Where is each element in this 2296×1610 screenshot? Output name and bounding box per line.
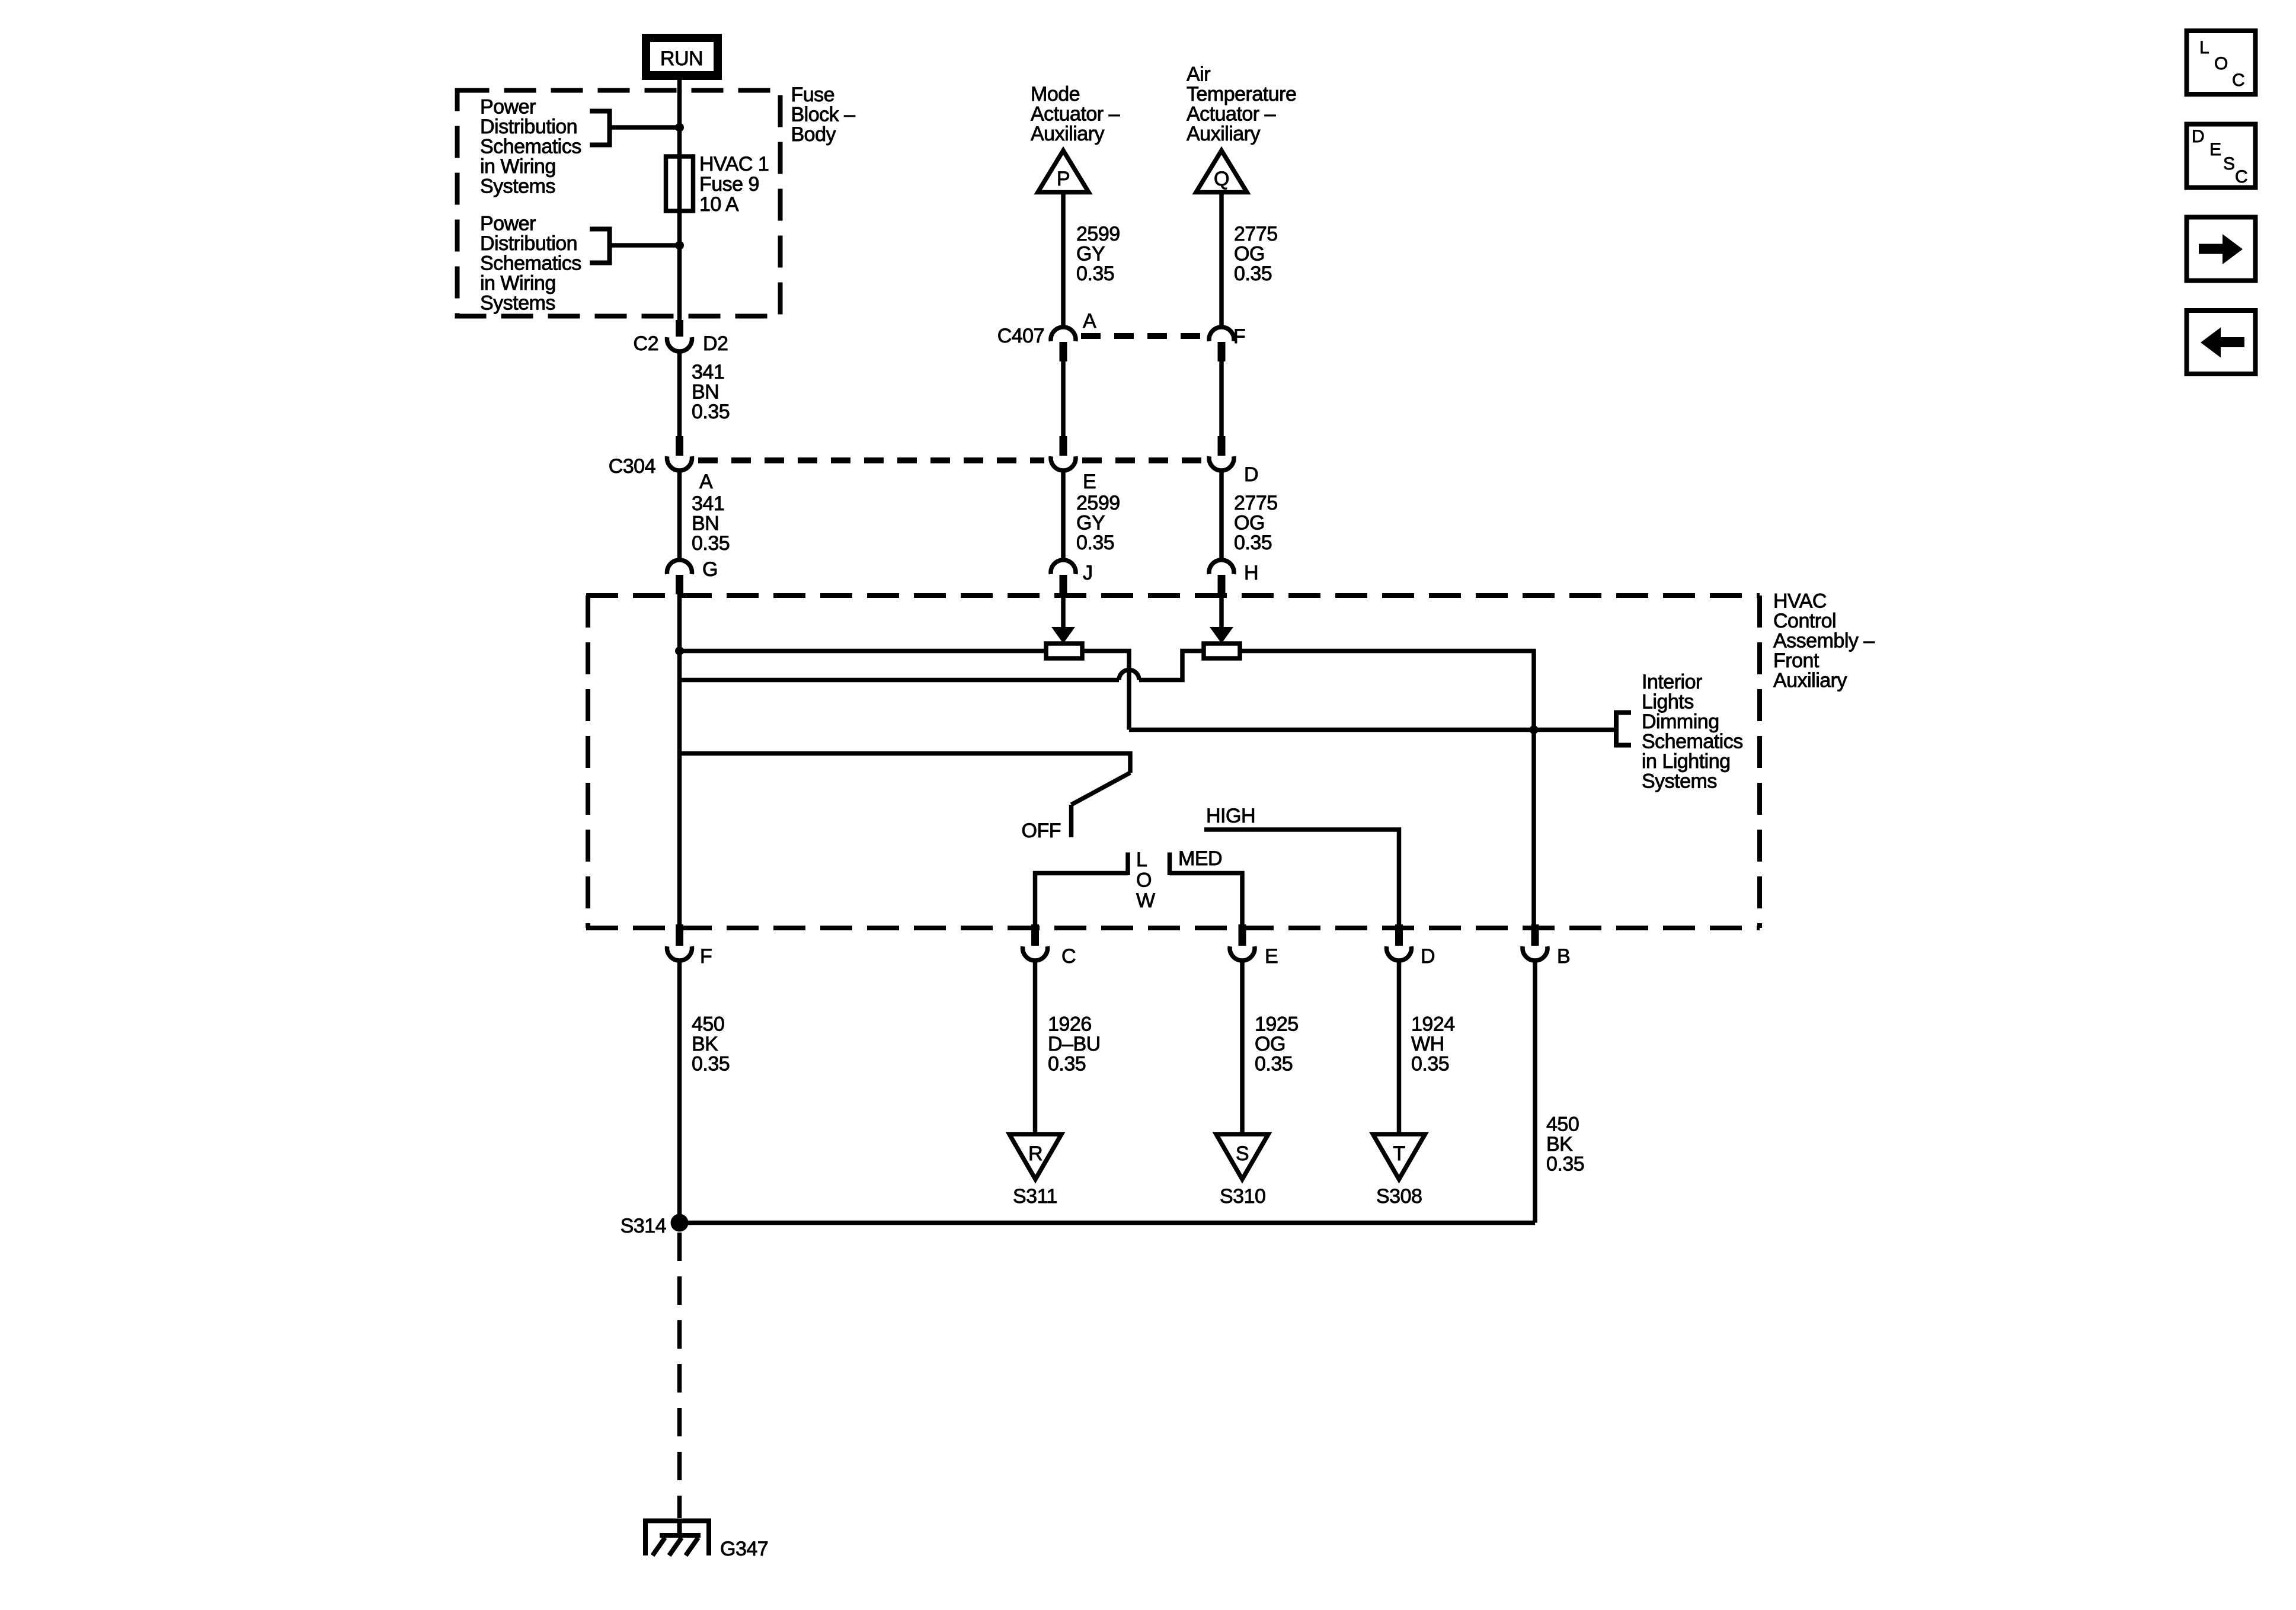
svg-text:OFF: OFF [1022,820,1061,842]
svg-text:Fuse: Fuse [791,84,835,106]
svg-text:1924: 1924 [1411,1013,1455,1036]
svg-text:W: W [1136,889,1155,912]
svg-text:2775: 2775 [1234,223,1278,245]
fuse F9 HVAC 1 symbol [666,156,693,211]
svg-text:B: B [1557,945,1570,968]
connector C304 pin D male stub [1218,436,1226,456]
svg-text:F: F [1233,325,1245,348]
svg-text:C407: C407 [997,325,1044,347]
label 2775 OG 0.35 (upper) [1234,223,1278,285]
wire bracket to junction upper [610,125,680,130]
wire F to S314, circuit 450 BK [677,962,682,1221]
connector C407 pin F dome [1209,327,1234,341]
svg-text:C304: C304 [609,455,655,478]
node junction at bus 1 [675,646,684,655]
svg-text:341: 341 [692,492,724,515]
svg-text:Temperature: Temperature [1187,83,1296,105]
wire MED contact to pin E [1170,873,1243,926]
svg-text:0.35: 0.35 [1234,263,1272,285]
svg-text:0.35: 0.35 [692,1053,730,1076]
ground bus wire S314 to B [680,1221,1536,1225]
svg-text:L: L [2199,38,2209,57]
svg-text:Dimming: Dimming [1642,710,1719,733]
dashed connector line C304 E to D [1082,457,1203,463]
nav box LOC [2187,31,2256,94]
bracket to Power Distribution Schematics (upper) [590,111,610,145]
svg-text:2599: 2599 [1076,492,1120,514]
svg-text:2775: 2775 [1234,492,1278,514]
svg-text:341: 341 [692,361,724,383]
svg-text:Actuator –: Actuator – [1187,103,1276,126]
wire H to arrow 2 [1219,593,1224,628]
svg-text:OG: OG [1255,1033,1285,1055]
wire P to C407 A, circuit 2599 GY [1061,194,1066,327]
svg-text:Actuator –: Actuator – [1031,103,1120,126]
left vertical wire inside box down to F [677,651,682,926]
svg-text:WH: WH [1411,1033,1444,1055]
wire C to S311, circuit 1926 D-BU [1033,962,1038,1133]
svg-text:OG: OG [1234,243,1265,265]
wire Q to C407 F, circuit 2775 OG [1219,194,1224,327]
svg-text:D–BU: D–BU [1048,1033,1101,1055]
svg-text:BN: BN [692,381,719,404]
label Fuse Block - Body [791,84,856,146]
wire C407 F to C304 D, circuit 2775 OG [1219,360,1224,438]
label LOW [1136,849,1155,912]
svg-text:Power: Power [480,96,536,119]
wire E to S310, circuit 1925 OG [1240,962,1245,1133]
main wire through fuse block [677,90,682,325]
svg-text:10 A: 10 A [699,193,739,216]
connector C407 pin A dome [1051,327,1076,341]
label Power Distribution Schematics in Wiring Systems (upper) [480,96,581,198]
wire LOW contact to pin C [1035,873,1128,926]
svg-text:Mode: Mode [1031,83,1080,105]
wire G into box [677,593,682,652]
svg-text:Schematics: Schematics [480,136,581,158]
svg-text:Auxiliary: Auxiliary [1187,123,1260,145]
connector pin G dome [667,560,692,574]
svg-text:BN: BN [692,513,719,535]
svg-text:S: S [1236,1142,1249,1165]
label HVAC Control Assembly - Front Auxiliary [1773,590,1875,692]
svg-text:S311: S311 [1013,1185,1057,1208]
off-page triangle Q (Air Temperature Actuator - Auxiliary) [1196,151,1247,193]
svg-text:F: F [700,945,712,968]
wire C2 to C304, circuit 341 BN [677,353,682,438]
RUN box (ignition switch position) [642,34,722,80]
svg-text:Distribution: Distribution [480,232,577,255]
MED contact [1168,853,1172,876]
bracket to Power Distribution Schematics (lower) [590,229,610,263]
connector pin C cup [1023,946,1048,961]
svg-text:C: C [1061,945,1076,968]
label Power Distribution Schematics in Wiring Systems (lower) [480,213,581,315]
connector pin J dome [1051,560,1076,574]
connector C304 pin E female cup [1051,456,1076,470]
connector C304 pin D female cup [1209,456,1234,470]
label 341 BN 0.35 (upper) [692,361,730,423]
connector pin F cup [667,946,692,961]
svg-text:Block –: Block – [791,104,856,126]
svg-text:L: L [1136,849,1147,871]
svg-text:1925: 1925 [1255,1013,1299,1036]
wire C304 to G, circuit 341 BN [677,472,682,561]
connector pin E stub [1239,924,1246,946]
wire RUN to fuse block [677,77,682,92]
arrowhead into resistor 2 [1210,627,1233,644]
svg-text:Schematics: Schematics [1642,731,1743,753]
svg-text:HIGH: HIGH [1206,805,1255,827]
svg-text:0.35: 0.35 [692,532,730,555]
bus wire 1 to resistor 1 [680,649,1047,654]
label 341 BN 0.35 (lower) [692,492,730,555]
bracket to Interior Lights Dimming Schematics [1616,713,1631,745]
connector pin H dome [1209,560,1234,574]
svg-text:Interior: Interior [1642,671,1702,693]
svg-text:Lights: Lights [1642,691,1694,713]
svg-text:0.35: 0.35 [1546,1153,1584,1176]
svg-text:Systems: Systems [480,175,555,198]
svg-text:in Wiring: in Wiring [480,155,556,178]
connector C407 pin F male stub [1218,342,1226,361]
svg-text:D: D [1244,463,1258,486]
connector pin B stub [1531,924,1539,946]
resistor 1 (mode actuator feed) [1046,644,1082,658]
svg-text:0.35: 0.35 [1234,532,1272,554]
label 1924 WH 0.35 [1411,1013,1455,1076]
resistor 2 (air temp actuator feed) [1204,644,1240,658]
nav box back arrow [2187,311,2256,374]
wire resistor 1 to corner [1082,651,1129,730]
nav box next arrow [2187,217,2256,281]
svg-text:S308: S308 [1376,1185,1422,1208]
svg-text:H: H [1244,562,1258,584]
svg-text:A: A [1083,310,1096,332]
wire J to arrow 1 [1061,593,1066,628]
Air Temperature Actuator label [1187,63,1296,146]
connector pin J male stub [1060,575,1067,594]
splice triangle R (S311) [1009,1134,1061,1179]
svg-text:E: E [1265,945,1278,968]
label 2599 GY 0.35 (lower) [1076,492,1120,554]
svg-text:D: D [2192,127,2204,146]
connector C2 D2 female cup [667,337,692,351]
connector pin H male stub [1218,575,1226,594]
Mode Actuator label [1031,83,1120,145]
label 450 BK 0.35 (right) [1546,1113,1584,1176]
connector C304 pin E male stub [1060,436,1067,456]
connector pin B cup [1523,946,1547,961]
arrowhead into resistor 1 [1051,627,1075,644]
svg-text:BK: BK [692,1033,718,1055]
wire C304 E to J [1061,472,1066,561]
svg-text:C: C [2235,167,2247,187]
svg-text:Control: Control [1773,610,1836,632]
LOW contact [1125,853,1130,876]
svg-text:Fuse 9: Fuse 9 [699,173,759,196]
svg-text:T: T [1393,1142,1405,1165]
svg-text:G347: G347 [720,1538,768,1560]
svg-text:O: O [1136,869,1152,892]
dashed connector line C304 A to E [698,457,1044,463]
off-page triangle P (Mode Actuator - Auxiliary) [1038,151,1089,193]
wire D to S308, circuit 1924 WH [1397,962,1402,1133]
connector C304 pin A male stub [676,436,683,456]
svg-text:OG: OG [1234,512,1265,534]
connector pin C stub [1031,924,1039,946]
svg-text:0.35: 0.35 [1076,263,1114,285]
svg-text:P: P [1057,168,1070,190]
bus wire 3 [1129,728,1616,732]
label Interior Lights Dimming Schematics in Lighting Systems [1642,671,1743,793]
connector pin F stub [676,924,683,946]
svg-text:A: A [699,470,713,493]
svg-text:Systems: Systems [480,292,555,315]
connector C304 pin A female cup [667,456,692,470]
OFF contact [1069,805,1074,837]
connector pin D stub [1395,924,1403,946]
svg-text:0.35: 0.35 [692,401,730,423]
svg-text:Systems: Systems [1642,770,1717,793]
wire junction down to B [1531,730,1536,926]
node junction upper [675,123,684,132]
svg-text:Q: Q [1214,168,1229,190]
svg-text:Assembly –: Assembly – [1773,630,1875,652]
svg-text:S314: S314 [621,1215,666,1237]
svg-text:D: D [1421,945,1435,968]
label 450 BK 0.35 (left) [692,1013,730,1076]
svg-text:450: 450 [692,1013,724,1036]
svg-text:Distribution: Distribution [480,116,577,138]
svg-text:S: S [2223,154,2235,174]
node junction at bus 3 [1530,725,1539,734]
svg-text:E: E [2209,140,2221,159]
wire B to ground bus, circuit 450 BK [1533,962,1537,1223]
connector pin D cup [1387,946,1412,961]
svg-text:MED: MED [1178,847,1222,870]
svg-text:HVAC 1: HVAC 1 [699,153,769,175]
svg-text:Air: Air [1187,63,1210,86]
svg-text:in Wiring: in Wiring [480,272,556,295]
node junction lower [675,241,684,250]
label 2775 OG 0.35 (lower) [1234,492,1278,554]
label 1925 OG 0.35 [1255,1013,1299,1076]
svg-text:in Lighting: in Lighting [1642,750,1731,773]
svg-text:Front: Front [1773,649,1819,672]
svg-text:S310: S310 [1220,1185,1265,1208]
nav box DESC [2187,124,2256,188]
svg-text:BK: BK [1546,1133,1573,1156]
bus wire 2 continued to resistor 2 [1139,651,1204,680]
svg-text:Body: Body [791,123,836,146]
ground symbol G347 [643,1519,711,1555]
splice triangle T (S308) [1373,1134,1425,1179]
fuse block dashed border (Fuse Block - Body) [458,91,781,316]
connector C407 pin A male stub [1060,342,1067,361]
svg-text:0.35: 0.35 [1076,532,1114,554]
svg-text:Auxiliary: Auxiliary [1773,670,1847,692]
bus wire 2 with hop over vertical [680,678,1120,683]
splice triangle S (S310) [1216,1134,1268,1179]
splice S314 node [671,1214,689,1232]
dashed connector line C407 A to F [1081,333,1203,339]
svg-text:0.35: 0.35 [1255,1053,1293,1076]
svg-text:HVAC: HVAC [1773,590,1827,613]
blower switch feed wire to OFF wiper [680,754,1131,773]
svg-text:C2: C2 [634,332,658,355]
svg-text:0.35: 0.35 [1048,1053,1086,1076]
HVAC Control Assembly dashed border [586,596,1760,928]
svg-text:RUN: RUN [660,47,703,70]
wire HIGH contact to pin D [1204,830,1399,926]
switch wiper blade [1072,773,1131,805]
svg-text:O: O [2214,54,2228,73]
svg-text:2599: 2599 [1076,223,1120,245]
label HVAC 1 Fuse 9 10 A [699,153,769,216]
wire C304 D to H [1219,472,1224,561]
svg-text:R: R [1028,1142,1043,1165]
wire C407 A to C304 E, circuit 2599 GY [1061,360,1066,438]
connector pin E cup [1230,946,1255,961]
svg-text:G: G [702,558,718,581]
wire hop (crossover) [1119,670,1139,680]
svg-text:1926: 1926 [1048,1013,1092,1036]
connector C2 D2 male stub [676,320,683,337]
wire bracket to junction lower [610,243,680,248]
svg-text:C: C [2232,71,2244,90]
svg-text:0.35: 0.35 [1411,1053,1449,1076]
svg-text:J: J [1083,562,1093,584]
svg-text:Auxiliary: Auxiliary [1031,123,1104,145]
dashed wire S314 to ground [677,1233,682,1518]
svg-text:E: E [1083,470,1096,493]
svg-text:Schematics: Schematics [480,252,581,275]
label 2599 GY 0.35 (upper) [1076,223,1120,285]
svg-text:GY: GY [1076,512,1105,534]
svg-text:Power: Power [480,213,536,235]
svg-text:450: 450 [1546,1113,1579,1136]
label 1926 D-BU 0.35 [1048,1013,1101,1076]
svg-text:GY: GY [1076,243,1105,265]
connector pin G male stub [676,575,683,594]
wire resistor 2 to right vertical [1240,651,1534,730]
svg-text:D2: D2 [703,332,728,355]
